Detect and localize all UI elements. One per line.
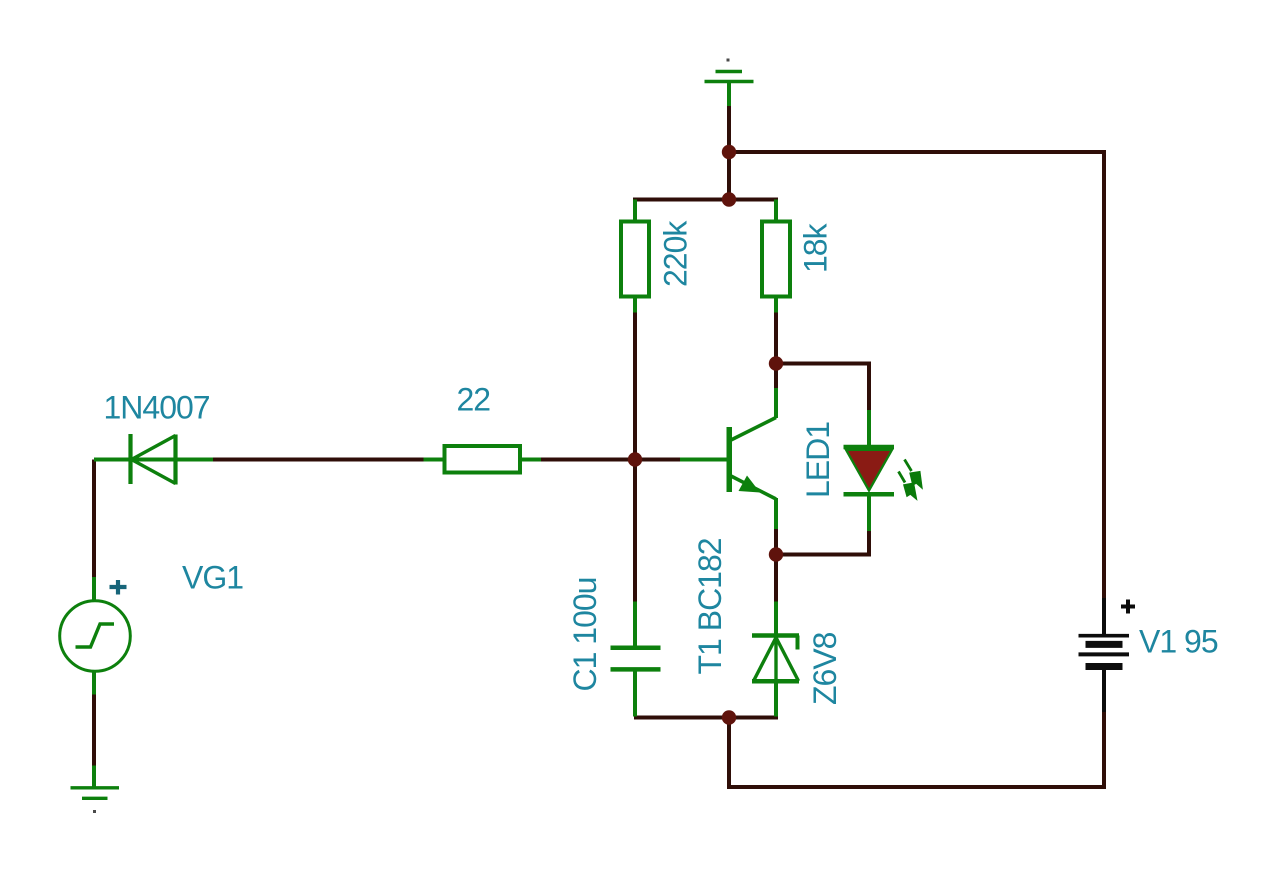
svg-text:V1 95: V1 95 — [1139, 624, 1218, 660]
svg-text:220k: 220k — [658, 220, 694, 287]
svg-text:LED1: LED1 — [800, 422, 836, 498]
svg-text:T1 BC182: T1 BC182 — [692, 538, 728, 674]
svg-text:22: 22 — [457, 382, 491, 418]
svg-text:18k: 18k — [797, 222, 833, 273]
svg-text:Z6V8: Z6V8 — [807, 632, 843, 705]
svg-text:1N4007: 1N4007 — [104, 390, 210, 426]
svg-text:VG1: VG1 — [182, 560, 243, 596]
svg-text:C1 100u: C1 100u — [567, 578, 603, 692]
